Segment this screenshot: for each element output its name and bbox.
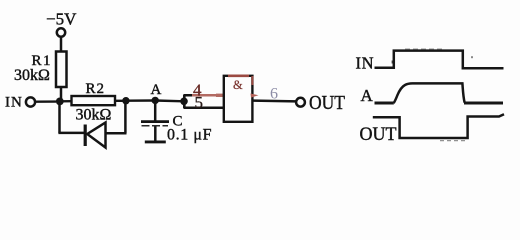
wire A to split node <box>155 99 184 102</box>
svg-text:A: A <box>361 86 374 105</box>
wire node to R2 <box>60 100 72 103</box>
wire IN to node <box>35 100 56 102</box>
terminal IN <box>5 95 35 111</box>
resistor R1 <box>56 52 67 88</box>
scan artifact speck <box>471 56 473 58</box>
svg-text:0.1 μF: 0.1 μF <box>167 127 212 144</box>
node junction R2/diode <box>122 97 129 104</box>
wire pin 4 <box>184 94 225 97</box>
node split junction <box>180 98 188 106</box>
node junction IN/R1/R2 <box>56 98 64 106</box>
wire bottom rail left <box>58 132 84 135</box>
diode D triangle <box>87 123 105 148</box>
wire up to R2 right node <box>124 101 127 134</box>
wire pin 6 output <box>253 99 297 102</box>
wire -5V to R1 <box>60 37 63 52</box>
wire split vertical bar <box>183 95 186 108</box>
NAND gate U1 body <box>224 76 253 122</box>
waveform A trace low left <box>375 102 394 105</box>
svg-text:A: A <box>151 82 162 98</box>
power terminal -5V <box>46 9 77 36</box>
waveform IN noise dashes <box>405 48 443 50</box>
node A <box>151 82 162 104</box>
waveform IN trace <box>375 51 504 69</box>
svg-text:&: & <box>233 78 243 92</box>
wire R2 to node <box>115 100 126 102</box>
svg-text:OUT: OUT <box>360 124 397 145</box>
wire node down to bottom rail <box>58 101 61 133</box>
svg-text:OUT: OUT <box>309 92 345 114</box>
waveform A trace <box>394 83 465 103</box>
svg-text:IN: IN <box>5 95 23 111</box>
wire to node A <box>126 99 155 102</box>
wire pin 5 <box>184 106 225 109</box>
resistor R2 <box>72 96 116 105</box>
diode D cathode bar <box>84 125 87 147</box>
waveform OUT noise dashes <box>440 140 466 142</box>
scan artifact tick near IN edge <box>392 61 394 64</box>
svg-text:6: 6 <box>270 86 278 103</box>
wire bottom rail right <box>106 132 127 135</box>
wire R1 to node <box>60 87 63 102</box>
waveform OUT trace <box>373 114 504 138</box>
svg-text:−5V: −5V <box>46 9 77 28</box>
waveform A trace low right <box>464 102 503 105</box>
svg-text:R2: R2 <box>86 81 106 97</box>
svg-text:5: 5 <box>195 93 204 112</box>
terminal OUT <box>296 92 345 114</box>
capacitor C plates <box>141 122 169 142</box>
output arrowhead pin 6 <box>251 94 259 98</box>
svg-text:30kΩ: 30kΩ <box>76 107 112 124</box>
svg-text:IN: IN <box>356 54 375 73</box>
svg-text:30kΩ: 30kΩ <box>14 67 50 84</box>
wire A to capacitor <box>154 100 157 121</box>
